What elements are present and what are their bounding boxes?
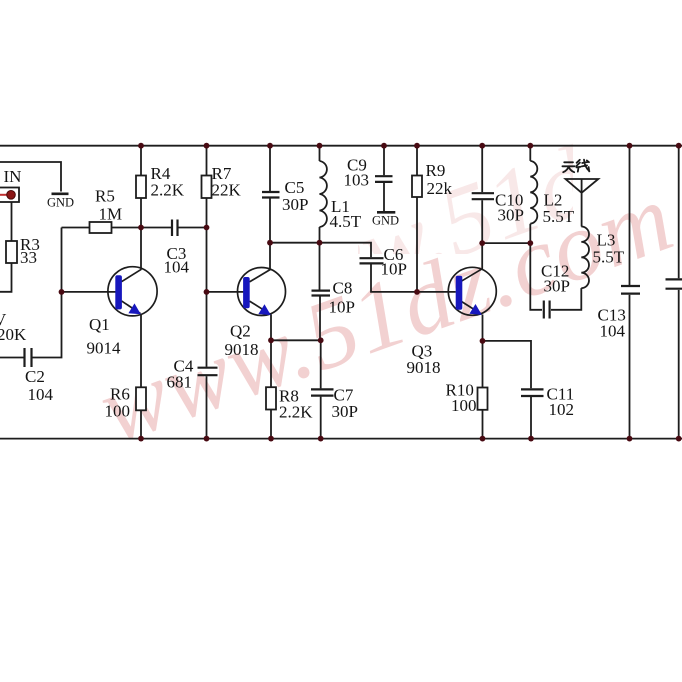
wire: tank node horizontal to C6 corner (270, 243, 371, 258)
label C7 30P (332, 386, 358, 422)
svg-text:5.5T: 5.5T (543, 207, 575, 226)
label C2 104 (25, 367, 54, 404)
resistor R6 (136, 387, 146, 410)
svg-text:2.2K: 2.2K (279, 403, 313, 422)
resistor R4 (136, 176, 146, 199)
capacitor C3 plates (172, 220, 178, 237)
wire: Q3 emitter drop (482, 315, 484, 341)
junction dots bottom rail (138, 436, 682, 442)
capacitor C14 right edge plates (666, 279, 682, 288)
wire: collector node to L2 node (482, 242, 530, 244)
wire: R6 to bottom rail (140, 410, 142, 438)
wire: R3 bottom to left edge (0, 263, 12, 292)
wire: L2 top lead (529, 146, 531, 161)
junction dots top rail (138, 143, 682, 149)
wire: input ground stub rail (0, 162, 61, 192)
svg-text:9014: 9014 (87, 339, 122, 358)
wire: L2 bottom to node and C12 (530, 224, 542, 310)
capacitor C2 plates (25, 348, 32, 367)
antenna symbol (566, 179, 599, 227)
svg-text:10P: 10P (329, 298, 355, 317)
wire: IN jack to R3 (11, 202, 13, 241)
label antenna 天线 (562, 160, 589, 173)
wire: Q3 emitter bus to C11 (483, 341, 532, 388)
wire: ground bottom rail (0, 438, 682, 440)
junction dots tank node (267, 240, 322, 246)
connector J1 IN jack (0, 188, 19, 203)
ground bar at C9 (377, 211, 395, 214)
label C8 10P (329, 279, 355, 317)
svg-text:33: 33 (20, 248, 37, 267)
label C5 30P (282, 178, 308, 214)
junction dot Q3 emitter bus (480, 338, 486, 344)
label C13 104 (598, 306, 626, 341)
wire: right edge cap top lead (678, 146, 680, 279)
wire: C3 to R7 column (179, 227, 207, 229)
label GND C9 (372, 213, 399, 227)
svg-text:5.5T: 5.5T (593, 247, 625, 266)
wire: Q1 base wire (62, 291, 118, 293)
svg-text:IN: IN (4, 167, 22, 186)
wire: C10 bottom to collector node (481, 200, 483, 243)
wire: R9 top lead (416, 146, 418, 176)
wire: R8 leads (270, 340, 272, 438)
label R8 2.2K (279, 387, 313, 422)
resistor R7 (202, 176, 212, 199)
svg-text:10P: 10P (381, 260, 407, 279)
label C3 104 (164, 244, 190, 277)
junction dots Q3 collector node (479, 240, 533, 246)
capacitor C12 plates (544, 301, 550, 319)
label L1 4.5T (330, 197, 362, 231)
wire: R7 bottom through Q2 base node to C4 (206, 198, 208, 367)
watermark faint upper fragment (221, 49, 682, 351)
svg-text:30P: 30P (332, 402, 358, 421)
svg-text:100: 100 (451, 396, 477, 415)
wire: R5 to R4 node to C3 (112, 227, 172, 229)
svg-text:1M: 1M (99, 205, 123, 224)
svg-text:104: 104 (600, 322, 626, 341)
svg-text:GND: GND (372, 213, 399, 227)
wire: R4 top lead (140, 146, 142, 176)
label C4 681 (167, 357, 194, 392)
capacitor C7 plates (311, 389, 334, 395)
label R9 22k (426, 161, 453, 198)
svg-text:100: 100 (105, 402, 131, 421)
wire: L1 top lead (319, 146, 321, 161)
svg-text:GND: GND (47, 195, 74, 209)
label R3 33 (20, 235, 40, 267)
svg-text:30P: 30P (282, 195, 308, 214)
wire: C8 top lead (319, 243, 321, 290)
wire: Q2 collector (269, 243, 271, 270)
label IN (4, 167, 22, 186)
watermark main diagonal (86, 163, 682, 465)
wire: C2 right lead up to R5 node (32, 228, 62, 358)
wire: L1 bottom lead (319, 227, 321, 243)
label Q1 9014 (87, 315, 122, 358)
svg-text:C2: C2 (25, 367, 45, 386)
label Q2 9018 (225, 322, 259, 360)
wire: R4 bottom lead to Q1 collector (140, 198, 142, 269)
svg-text:104: 104 (28, 385, 54, 404)
wire: R9 bottom to Q3 base node (416, 197, 418, 292)
resistor R3 (6, 241, 17, 263)
capacitor C4 plates (198, 368, 218, 376)
resistor R9 (412, 176, 422, 198)
junction dots Q2 emitter bus (268, 337, 324, 343)
junction dot Q1 base node (59, 289, 65, 295)
svg-text:20K: 20K (0, 325, 27, 344)
label GND input (47, 195, 74, 209)
wire: C13 bottom lead (629, 295, 631, 439)
svg-text:Q1: Q1 (89, 315, 110, 334)
junction dot Q3 base node (414, 289, 420, 295)
label R10 100 (446, 381, 477, 416)
label C11 102 (547, 385, 575, 420)
svg-text:22K: 22K (212, 181, 242, 200)
capacitor C9 plates (375, 176, 393, 182)
connector red pointer (0, 194, 7, 196)
wire: C11 bottom lead (530, 397, 532, 439)
capacitor C13 plates (621, 286, 640, 294)
label R6 100 (105, 385, 131, 421)
wire: Q3 collector (481, 243, 483, 269)
svg-text:102: 102 (549, 400, 575, 419)
inductor L3 coil (581, 227, 589, 289)
wire: C2 left lead (0, 357, 24, 359)
transistor Q2 (238, 268, 286, 316)
wire: node to R5 (62, 227, 90, 229)
svg-text:30P: 30P (498, 206, 524, 225)
wire: Q2 emitter drop (270, 315, 272, 341)
svg-text:4.5T: 4.5T (330, 212, 362, 231)
wire: R10 leads (482, 341, 484, 439)
label C6 10P (381, 245, 407, 279)
wire: Q1 emitter to R6 (140, 314, 142, 388)
capacitor C10 plates (472, 193, 494, 199)
label L2 5.5T (543, 190, 575, 226)
svg-text:9018: 9018 (225, 340, 259, 359)
wire: C9 bottom to ground bar (383, 183, 385, 211)
label Q3 9018 (407, 342, 441, 378)
transistor Q1 (108, 267, 157, 316)
svg-text:C8: C8 (333, 279, 353, 298)
wire: C12 right lead to L3 bottom (551, 288, 581, 310)
svg-text:R5: R5 (95, 187, 115, 206)
resistor R5 (90, 222, 112, 233)
wire: +V top rail (0, 145, 682, 147)
label R5 1M (95, 187, 122, 224)
wire: C13 top lead (629, 146, 631, 285)
svg-text:9018: 9018 (407, 358, 441, 377)
transistor Q3 (448, 267, 496, 315)
label V 20K pot (0, 310, 27, 344)
wire: R7 top lead (206, 146, 208, 176)
svg-text:Q2: Q2 (230, 322, 251, 341)
svg-text:R9: R9 (426, 161, 446, 180)
wire: Q2 base wire (207, 291, 245, 293)
junction dot Q2 base node (204, 289, 210, 295)
capacitor C8 plates (312, 291, 331, 296)
svg-text:30P: 30P (544, 277, 570, 296)
inductor L1 coil (320, 161, 327, 227)
label C10 30P (495, 190, 524, 224)
wire: C9 top lead (383, 146, 385, 176)
inductor L2 coil (530, 161, 537, 224)
capacitor C11 plates (521, 389, 544, 396)
wire: C10 top lead (481, 146, 483, 193)
svg-text:103: 103 (344, 171, 370, 190)
wire: C4 to bottom rail (206, 376, 208, 438)
capacitor C6 plates (360, 258, 384, 263)
connector red pin dot (7, 191, 16, 200)
wire: C5 top lead (269, 146, 271, 192)
resistor R8 (266, 387, 276, 409)
label C9 103 (344, 155, 370, 189)
label L3 5.5T (593, 231, 625, 267)
resistor R10 (478, 388, 488, 410)
svg-text:681: 681 (167, 373, 193, 392)
wire: Q2 emitter bus (271, 339, 321, 341)
ground bar at input (52, 193, 69, 196)
svg-text:22k: 22k (427, 179, 453, 198)
wire: C5 bottom to tank node (269, 198, 271, 242)
label C12 30P (541, 261, 570, 295)
svg-text:2.2K: 2.2K (151, 181, 185, 200)
svg-text:104: 104 (164, 258, 190, 277)
wire: C6 bottom to Q3 base node (371, 264, 456, 292)
wire: right edge cap bottom lead (678, 290, 680, 439)
wire: C7 leads (320, 340, 322, 438)
junction dot node R5-R4-C3 (138, 225, 209, 231)
label R4 2.2K (151, 164, 185, 200)
wire: C8 bottom to emitter bus (319, 297, 321, 341)
capacitor C5 plates (262, 192, 280, 198)
label R7 22K (212, 164, 242, 200)
